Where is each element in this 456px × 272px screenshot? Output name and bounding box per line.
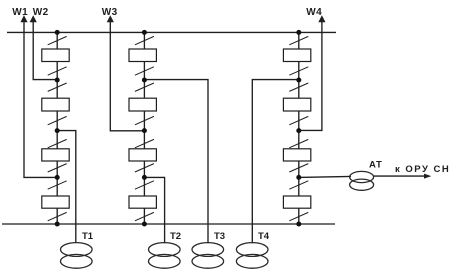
svg-text:W1: W1 bbox=[12, 7, 28, 18]
svg-text:к ОРУ СН: к ОРУ СН bbox=[395, 164, 450, 175]
svg-text:W3: W3 bbox=[102, 7, 118, 18]
svg-text:T4: T4 bbox=[258, 231, 270, 242]
svg-text:T1: T1 bbox=[82, 231, 94, 242]
svg-text:T2: T2 bbox=[170, 231, 181, 242]
svg-text:T3: T3 bbox=[214, 231, 225, 242]
svg-text:W2: W2 bbox=[33, 7, 49, 18]
svg-text:W4: W4 bbox=[306, 7, 322, 18]
svg-text:AT: AT bbox=[369, 160, 383, 171]
